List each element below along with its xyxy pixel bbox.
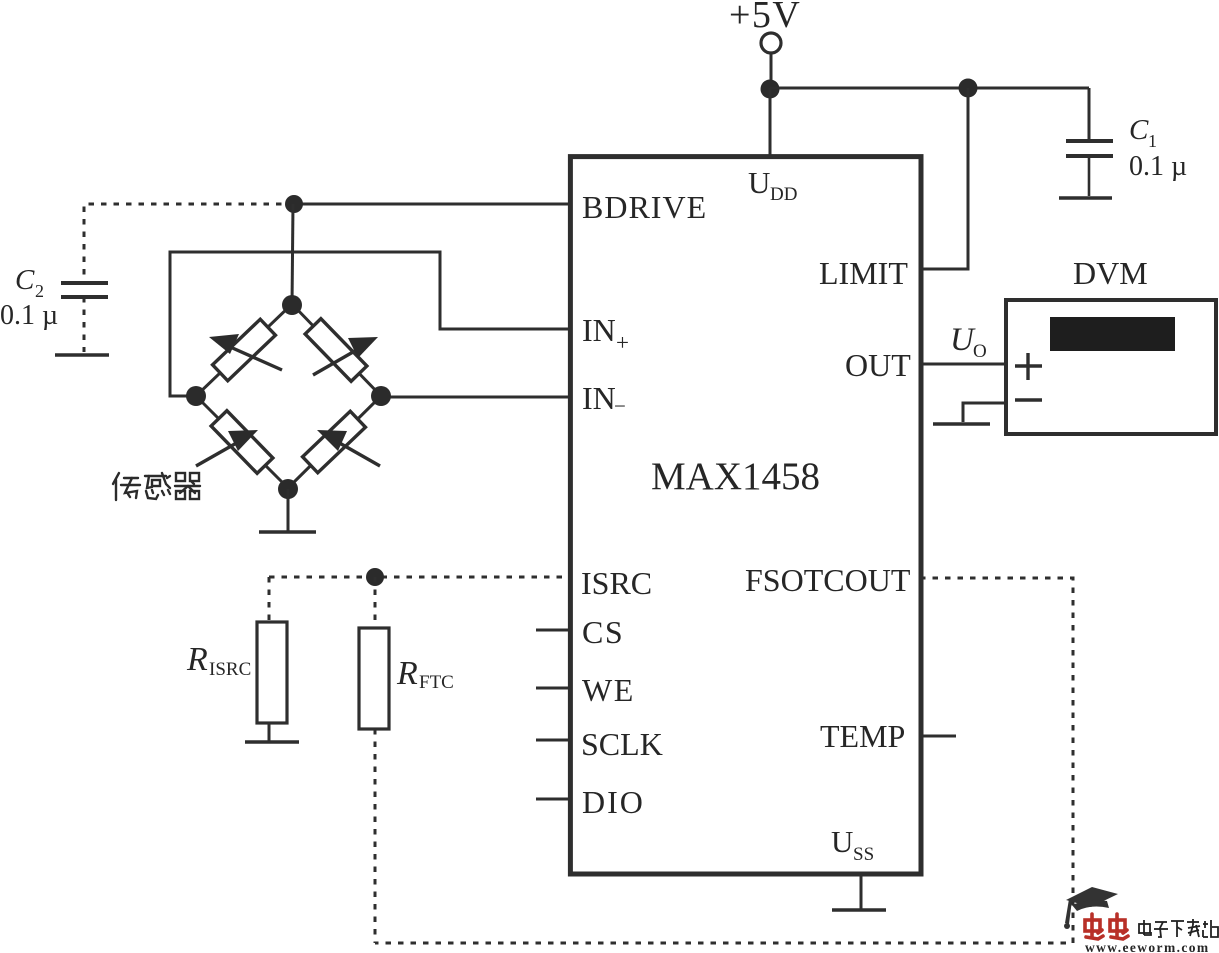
resistor RFTC body xyxy=(359,628,389,729)
wire dashed FSOTCOUT loop xyxy=(375,578,1073,943)
label RFTC xyxy=(396,655,454,693)
svg-text:IN: IN xyxy=(582,380,616,416)
ground for bridge xyxy=(259,530,316,533)
bridge arrow top-left xyxy=(209,334,282,370)
svg-text:MAX1458: MAX1458 xyxy=(651,455,820,498)
ground for RISRC xyxy=(245,740,299,743)
DVM minus terminal xyxy=(1015,398,1042,401)
label C1 value xyxy=(1129,114,1187,182)
wire +5V circle to junction xyxy=(770,53,773,89)
power terminal +5V label xyxy=(729,0,801,36)
wire RISRC bottom lead xyxy=(268,723,271,741)
pin stub WE xyxy=(536,687,571,690)
wire DVM minus to ground xyxy=(963,403,1006,422)
svg-text:DIO: DIO xyxy=(582,784,645,820)
resistor RISRC body xyxy=(257,622,287,723)
wire dashed C2 bottom lead xyxy=(83,297,86,352)
ground for C2 xyxy=(55,353,109,356)
IC pin labels xyxy=(581,165,911,865)
svg-text:CS: CS xyxy=(582,614,624,650)
node junction at UDD rail xyxy=(761,80,780,99)
bridge arrow bottom-right xyxy=(317,430,380,466)
pin stub CS xyxy=(536,629,571,632)
感 char xyxy=(145,473,170,499)
node junction RFTC on ISRC rail xyxy=(366,568,384,586)
wire dashed RISRC top lead xyxy=(268,577,271,623)
wire top rail horizontal xyxy=(770,87,1089,90)
svg-text:DVM: DVM xyxy=(1073,255,1148,291)
DVM meter box xyxy=(1006,300,1216,434)
bridge resistor body bottom-left xyxy=(211,411,273,474)
svg-text:BDRIVE: BDRIVE xyxy=(582,189,707,225)
node bridge right vertex xyxy=(371,386,391,406)
svg-text:1: 1 xyxy=(1148,131,1157,151)
bridge resistor body top-right xyxy=(305,319,367,382)
wire bridge bottom to ground xyxy=(287,489,290,531)
bridge resistor body bottom-right xyxy=(303,411,366,473)
svg-text:SS: SS xyxy=(853,844,874,865)
svg-text:R: R xyxy=(396,655,418,692)
svg-text:C: C xyxy=(1129,114,1149,146)
svg-text:−: − xyxy=(614,394,626,418)
wire C1 top lead xyxy=(1088,88,1091,140)
wire dashed BDRIVE to C2 xyxy=(84,204,294,281)
capacitor C2 xyxy=(61,283,108,297)
label sensor 传感器 (drawn strokes) xyxy=(113,473,200,500)
svg-text:SCLK: SCLK xyxy=(581,726,663,762)
label C2 value xyxy=(0,264,58,331)
bridge arrow bottom-left xyxy=(196,430,258,466)
power terminal circle xyxy=(761,33,781,53)
svg-text:www.eeworm.com: www.eeworm.com xyxy=(1085,940,1210,953)
wire IN+ route xyxy=(170,252,571,396)
svg-text:DD: DD xyxy=(770,184,797,205)
svg-text:O: O xyxy=(973,341,987,362)
wire dashed RFTC bottom to FSOTCOUT loop xyxy=(374,729,377,943)
node junction bridge-top / BDRIVE xyxy=(285,195,303,213)
svg-text:R: R xyxy=(186,641,208,678)
ground for C1 xyxy=(1059,196,1112,199)
svg-text:U: U xyxy=(748,165,770,200)
svg-text:FSOTCOUT: FSOTCOUT xyxy=(745,562,911,598)
器 char xyxy=(175,473,200,499)
DVM plus terminal xyxy=(1015,353,1042,380)
watermark url www.eeworm.com xyxy=(1085,940,1210,953)
svg-text:ISRC: ISRC xyxy=(581,565,652,601)
wire dashed RFTC top lead xyxy=(374,577,377,629)
watermark logo graduation cap xyxy=(1064,887,1118,929)
svg-text:TEMP: TEMP xyxy=(820,718,905,754)
svg-text:FTC: FTC xyxy=(419,672,454,693)
wire IN- from bridge right vertex xyxy=(381,396,571,399)
pin stub TEMP xyxy=(920,735,956,738)
bridge arrow top-right xyxy=(313,337,378,375)
sensor bridge arms xyxy=(196,304,381,488)
svg-text:IN: IN xyxy=(582,312,616,348)
ground for DVM minus xyxy=(933,422,990,425)
bridge resistor body top-left xyxy=(213,319,276,381)
watermark 电子下载站 black characters xyxy=(1139,919,1218,937)
label UO xyxy=(950,322,987,362)
svg-text:ISRC: ISRC xyxy=(209,659,251,680)
pin stub DIO xyxy=(536,798,571,801)
svg-text:+5V: +5V xyxy=(729,0,801,36)
wire bridge top to BDRIVE junction xyxy=(292,204,293,306)
node bridge bottom vertex xyxy=(278,479,298,499)
wire dashed ISRC rail xyxy=(269,576,571,579)
IC U1 MAX1458 body xyxy=(570,157,921,874)
svg-text:OUT: OUT xyxy=(845,347,911,383)
node bridge top vertex xyxy=(282,295,302,315)
svg-text:WE: WE xyxy=(582,672,635,708)
node junction at LIMIT branch xyxy=(959,79,978,98)
svg-text:+: + xyxy=(616,330,629,355)
svg-text:U: U xyxy=(831,824,853,859)
svg-text:0.1 µ: 0.1 µ xyxy=(0,300,58,331)
wire UDD down into IC xyxy=(769,88,772,158)
DVM display bar xyxy=(1050,317,1175,351)
ground for USS xyxy=(832,908,886,911)
pin stub SCLK xyxy=(536,739,571,742)
wire LIMIT branch down and into IC xyxy=(921,88,968,269)
wire BDRIVE solid to bridge top junction xyxy=(294,203,571,206)
node bridge left vertex xyxy=(186,386,206,406)
传 char xyxy=(113,473,140,500)
wire USS to ground xyxy=(860,874,863,909)
svg-text:2: 2 xyxy=(35,281,44,301)
wire OUT to DVM xyxy=(920,363,1006,366)
svg-text:C: C xyxy=(15,264,35,296)
svg-text:LIMIT: LIMIT xyxy=(819,255,908,291)
label DVM xyxy=(1073,255,1148,291)
capacitor C1 xyxy=(1066,141,1113,196)
watermark 虫虫 red characters xyxy=(1085,914,1128,939)
svg-text:0.1 µ: 0.1 µ xyxy=(1129,151,1187,182)
label RISRC xyxy=(186,641,251,680)
